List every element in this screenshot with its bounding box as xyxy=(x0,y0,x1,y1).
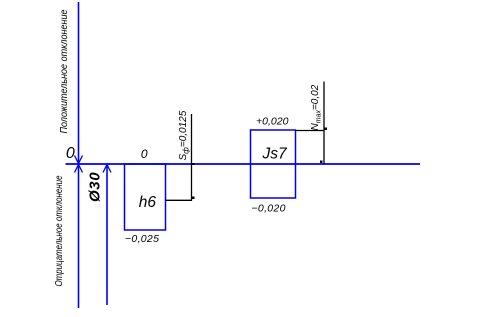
svg-text:0: 0 xyxy=(66,145,75,162)
arrow down at origin xyxy=(75,156,83,164)
arrow up below origin xyxy=(75,165,83,173)
N dimension horizontal line xyxy=(296,130,325,132)
horizontal zero line axis xyxy=(66,163,421,165)
svg-text:−0,025: −0,025 xyxy=(125,233,159,245)
tolerance zone Js7 xyxy=(251,130,296,198)
svg-text:0: 0 xyxy=(141,147,148,161)
S dimension tick top xyxy=(192,163,195,165)
vertical deviation axis xyxy=(78,2,80,308)
svg-text:Nmax=0,02: Nmax=0,02 xyxy=(310,84,323,130)
N dimension tick bottom xyxy=(320,161,323,164)
svg-text:h6: h6 xyxy=(139,194,157,211)
tolerance zone h6 xyxy=(125,164,166,230)
svg-text:+0,020: +0,020 xyxy=(256,116,289,128)
svg-text:Отрицательное отклонение: Отрицательное отклонение xyxy=(54,175,65,286)
svg-text:Положительное отклонение: Положительное отклонение xyxy=(59,9,70,133)
svg-text:−0,020: −0,020 xyxy=(252,203,286,215)
S dimension tick bottom xyxy=(192,197,195,200)
S dimension vertical line xyxy=(191,114,193,201)
svg-text:Js7: Js7 xyxy=(262,146,289,163)
arrow up on D30 line xyxy=(103,165,111,173)
S dimension horizontal line xyxy=(166,199,193,201)
N dimension tick top xyxy=(325,128,328,131)
dimension line D30 right xyxy=(106,165,108,306)
svg-text:Ø30: Ø30 xyxy=(87,172,104,202)
N dimension vertical line xyxy=(323,82,325,164)
